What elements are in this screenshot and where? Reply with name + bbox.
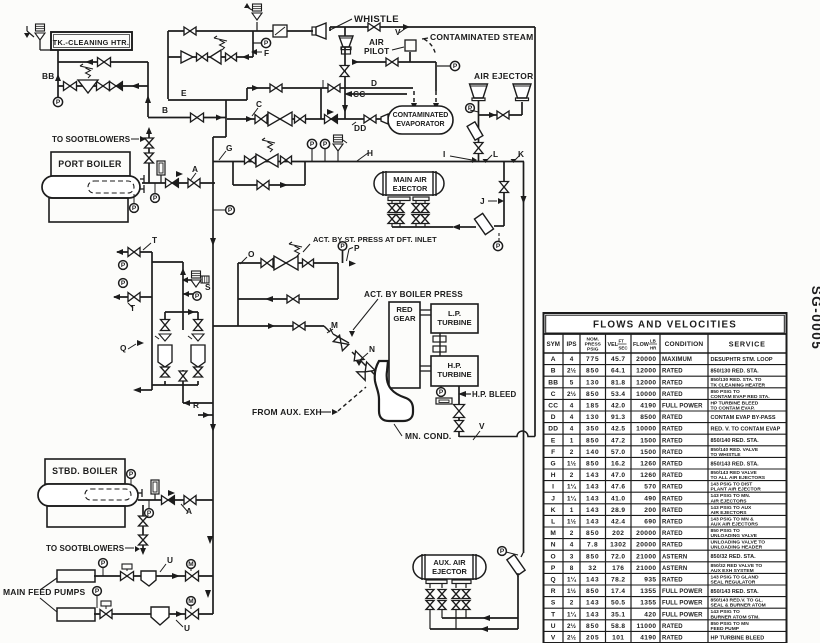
svg-text:DD: DD — [354, 123, 367, 133]
svg-text:16.2: 16.2 — [611, 461, 625, 468]
svg-text:P: P — [310, 141, 315, 148]
svg-text:35.1: 35.1 — [611, 611, 625, 618]
svg-text:47.6: 47.6 — [611, 484, 625, 491]
svg-text:TO CONTAM EVAP.: TO CONTAM EVAP. — [711, 406, 756, 412]
svg-text:935: 935 — [644, 577, 656, 584]
svg-text:RATED: RATED — [662, 496, 683, 502]
svg-text:ACT. BY ST. PRESS AT DFT. INLE: ACT. BY ST. PRESS AT DFT. INLET — [313, 235, 437, 244]
svg-text:143: 143 — [586, 519, 599, 526]
svg-text:B: B — [551, 368, 556, 375]
svg-text:850/143 RED VALVE: 850/143 RED VALVE — [711, 470, 758, 476]
svg-text:HP TURBINE BLEED: HP TURBINE BLEED — [711, 635, 765, 641]
svg-text:RATED: RATED — [662, 636, 683, 642]
svg-text:2: 2 — [570, 530, 574, 537]
svg-text:850/143 RED. STA.: 850/143 RED. STA. — [711, 589, 760, 595]
svg-text:10000: 10000 — [636, 426, 656, 433]
svg-text:P: P — [132, 205, 137, 212]
svg-text:DD: DD — [548, 426, 558, 433]
svg-text:ACT. BY BOILER PRESS: ACT. BY BOILER PRESS — [364, 290, 463, 299]
svg-text:RED. V. TO CONTAM EVAP: RED. V. TO CONTAM EVAP — [711, 427, 781, 433]
svg-text:130: 130 — [586, 414, 599, 421]
svg-text:4190: 4190 — [640, 635, 656, 642]
svg-text:8: 8 — [570, 565, 574, 572]
svg-text:570: 570 — [644, 484, 656, 491]
svg-text:143 PSIG TO DIST: 143 PSIG TO DIST — [711, 482, 753, 488]
svg-text:143 PSIG TO MN &: 143 PSIG TO MN & — [711, 516, 755, 522]
svg-text:DESUPHTR STM. LOOP: DESUPHTR STM. LOOP — [711, 357, 773, 363]
svg-text:RATED: RATED — [662, 427, 683, 433]
svg-text:P: P — [101, 560, 106, 567]
svg-text:V: V — [551, 635, 556, 642]
svg-text:I: I — [443, 149, 446, 159]
svg-text:L: L — [551, 519, 555, 526]
svg-text:FULL POWER: FULL POWER — [662, 589, 703, 595]
svg-text:12000: 12000 — [636, 379, 656, 386]
svg-text:P: P — [264, 40, 269, 47]
svg-text:1¼: 1¼ — [567, 483, 577, 491]
svg-text:FT: FT — [619, 339, 625, 344]
svg-text:1260: 1260 — [640, 461, 656, 468]
svg-text:1355: 1355 — [640, 600, 656, 607]
svg-text:4: 4 — [570, 414, 574, 421]
svg-text:72.0: 72.0 — [611, 553, 625, 560]
svg-text:P: P — [323, 141, 328, 148]
svg-text:GEAR: GEAR — [393, 314, 416, 323]
svg-text:41.0: 41.0 — [611, 495, 625, 502]
svg-text:IPS: IPS — [567, 341, 577, 348]
svg-text:850: 850 — [586, 437, 599, 444]
svg-text:SEAL & BURNER ATOM: SEAL & BURNER ATOM — [711, 603, 766, 609]
svg-text:RED: RED — [396, 305, 413, 314]
svg-text:202: 202 — [612, 530, 624, 537]
svg-text:UNLOADING HEADER: UNLOADING HEADER — [711, 545, 763, 551]
svg-text:RATED: RATED — [662, 508, 683, 514]
svg-text:P: P — [439, 389, 444, 396]
svg-text:SERVICE: SERVICE — [729, 339, 766, 348]
svg-text:F: F — [551, 449, 555, 456]
svg-text:M: M — [188, 598, 193, 605]
svg-text:RATED: RATED — [662, 415, 683, 421]
svg-text:R: R — [193, 400, 199, 410]
svg-text:FULL POWER: FULL POWER — [662, 404, 703, 410]
svg-text:2½: 2½ — [567, 390, 577, 398]
svg-text:42.5: 42.5 — [611, 426, 625, 433]
svg-text:TO WHISTLE: TO WHISTLE — [711, 452, 742, 458]
svg-text:850 PSIG TO MN: 850 PSIG TO MN — [711, 621, 750, 627]
svg-text:S: S — [551, 600, 556, 607]
svg-text:78.2: 78.2 — [611, 577, 625, 584]
svg-text:G: G — [226, 143, 233, 153]
svg-text:850: 850 — [586, 368, 599, 375]
svg-text:CC: CC — [548, 403, 558, 410]
svg-text:SYM: SYM — [547, 341, 560, 348]
svg-text:1¼: 1¼ — [567, 576, 577, 584]
svg-text:4: 4 — [570, 403, 574, 410]
svg-text:P: P — [354, 243, 360, 253]
svg-text:STBD. BOILER: STBD. BOILER — [52, 466, 118, 476]
svg-text:L.P.: L.P. — [448, 309, 461, 318]
svg-text:850/130 RED. STA. TO: 850/130 RED. STA. TO — [711, 377, 762, 383]
svg-text:2: 2 — [570, 449, 574, 456]
svg-text:MAIN FEED PUMPS: MAIN FEED PUMPS — [3, 587, 85, 597]
svg-text:850 PSIG TO: 850 PSIG TO — [711, 528, 740, 534]
svg-text:B: B — [162, 105, 168, 115]
svg-text:VEL: VEL — [608, 342, 619, 348]
svg-text:SEC: SEC — [619, 346, 629, 351]
svg-text:BURNER ATOM STM.: BURNER ATOM STM. — [711, 614, 761, 620]
svg-text:MAXIMUM: MAXIMUM — [662, 357, 692, 363]
svg-text:J: J — [551, 495, 555, 502]
svg-text:20000: 20000 — [636, 542, 656, 549]
svg-text:UNLOADING VALVE TO: UNLOADING VALVE TO — [711, 540, 766, 546]
svg-text:ASTERN: ASTERN — [662, 554, 687, 560]
svg-text:L: L — [493, 149, 498, 159]
svg-text:50.5: 50.5 — [611, 600, 625, 607]
svg-text:1: 1 — [570, 507, 574, 514]
svg-text:AIR EJECTORS: AIR EJECTORS — [711, 498, 748, 504]
svg-text:BB: BB — [548, 379, 558, 386]
svg-text:CONTAMINATED: CONTAMINATED — [393, 112, 449, 119]
svg-text:17.4: 17.4 — [611, 588, 625, 595]
svg-text:E: E — [181, 88, 187, 98]
svg-text:S: S — [205, 282, 211, 292]
svg-text:V: V — [479, 421, 485, 431]
svg-text:T: T — [152, 235, 157, 245]
svg-text:143: 143 — [586, 507, 599, 514]
svg-text:140: 140 — [586, 449, 599, 456]
svg-text:HP TURBINE BLEED: HP TURBINE BLEED — [711, 400, 759, 406]
svg-text:LB: LB — [650, 339, 656, 344]
svg-text:UNLOADING VALVE: UNLOADING VALVE — [711, 533, 758, 539]
svg-text:45.7: 45.7 — [611, 356, 625, 363]
svg-text:47.2: 47.2 — [611, 437, 625, 444]
svg-text:MN. COND.: MN. COND. — [405, 431, 451, 441]
svg-text:P: P — [453, 63, 458, 70]
svg-text:21000: 21000 — [636, 565, 656, 572]
svg-text:11000: 11000 — [637, 623, 657, 630]
svg-text:H.P.: H.P. — [448, 361, 462, 370]
svg-text:PSIG: PSIG — [587, 346, 599, 352]
svg-text:143: 143 — [586, 611, 599, 618]
svg-text:O: O — [248, 249, 255, 259]
svg-text:AIR EJECTORS: AIR EJECTORS — [711, 510, 748, 516]
svg-text:130: 130 — [586, 379, 599, 386]
svg-text:57.0: 57.0 — [611, 449, 625, 456]
svg-text:N: N — [369, 344, 375, 354]
svg-text:850: 850 — [586, 530, 599, 537]
svg-text:101: 101 — [612, 635, 624, 642]
svg-text:7.8: 7.8 — [587, 542, 599, 549]
svg-text:M: M — [550, 530, 556, 537]
svg-text:I: I — [552, 484, 554, 491]
svg-text:850: 850 — [586, 553, 599, 560]
svg-text:AIR EJECTOR: AIR EJECTOR — [474, 71, 533, 81]
svg-text:850: 850 — [586, 623, 599, 630]
svg-text:21000: 21000 — [636, 553, 656, 560]
svg-text:RATED: RATED — [662, 462, 683, 468]
svg-text:M: M — [331, 320, 338, 330]
svg-text:J: J — [480, 196, 485, 206]
svg-text:1½: 1½ — [567, 587, 577, 595]
svg-text:EJECTOR: EJECTOR — [393, 184, 428, 193]
svg-text:M: M — [188, 561, 193, 568]
svg-text:A: A — [551, 356, 556, 363]
svg-text:1500: 1500 — [640, 449, 656, 456]
svg-text:850: 850 — [586, 461, 599, 468]
svg-text:850 PSIG TO: 850 PSIG TO — [711, 389, 740, 395]
svg-text:D: D — [371, 78, 377, 88]
svg-text:P: P — [468, 105, 473, 112]
svg-text:1302: 1302 — [610, 542, 626, 549]
svg-text:AUX. AIR: AUX. AIR — [433, 558, 466, 567]
svg-text:28.9: 28.9 — [611, 507, 625, 514]
svg-text:E: E — [551, 437, 556, 444]
svg-text:U: U — [167, 555, 173, 565]
svg-text:850/140 RED. VALVE: 850/140 RED. VALVE — [711, 447, 759, 453]
svg-text:P: P — [56, 99, 61, 106]
svg-text:143: 143 — [586, 577, 599, 584]
svg-text:RATED: RATED — [662, 380, 683, 386]
svg-text:RATED: RATED — [662, 520, 683, 526]
svg-text:143: 143 — [586, 600, 599, 607]
svg-text:490: 490 — [644, 495, 656, 502]
svg-text:TURBINE: TURBINE — [437, 318, 471, 327]
svg-text:P: P — [153, 195, 158, 202]
svg-text:RATED: RATED — [662, 624, 683, 630]
svg-text:RATED: RATED — [662, 438, 683, 444]
svg-text:RATED: RATED — [662, 392, 683, 398]
svg-text:CONTAMINATED STEAM: CONTAMINATED STEAM — [430, 32, 533, 42]
svg-text:H.P. BLEED: H.P. BLEED — [472, 390, 516, 399]
svg-text:CONDITION: CONDITION — [665, 341, 704, 348]
svg-text:FROM AUX. EXH: FROM AUX. EXH — [252, 407, 322, 417]
svg-text:850/130 RED. STA.: 850/130 RED. STA. — [711, 369, 760, 375]
svg-text:53.4: 53.4 — [611, 391, 625, 398]
svg-text:P: P — [121, 262, 126, 269]
svg-text:P: P — [95, 588, 100, 595]
svg-text:C: C — [256, 99, 262, 109]
svg-text:H: H — [551, 472, 556, 479]
svg-text:Q: Q — [120, 343, 127, 353]
svg-text:850/32 RED VALVE TO: 850/32 RED VALVE TO — [711, 563, 763, 569]
svg-text:32: 32 — [588, 565, 597, 572]
svg-text:81.8: 81.8 — [611, 379, 625, 386]
svg-text:185: 185 — [586, 403, 599, 410]
svg-text:143 PSIG TO MN.: 143 PSIG TO MN. — [711, 493, 751, 499]
svg-text:143: 143 — [586, 484, 599, 491]
svg-text:775: 775 — [586, 356, 599, 363]
svg-text:5: 5 — [570, 379, 574, 386]
svg-text:O: O — [551, 553, 556, 560]
svg-text:TO SOOTBLOWERS: TO SOOTBLOWERS — [52, 135, 131, 144]
svg-text:10000: 10000 — [636, 391, 656, 398]
svg-text:42.0: 42.0 — [611, 403, 625, 410]
svg-text:K: K — [518, 149, 524, 159]
svg-text:TURBINE: TURBINE — [437, 370, 471, 379]
svg-text:1¼: 1¼ — [567, 610, 577, 618]
svg-text:143 PSIG TO GLAND: 143 PSIG TO GLAND — [711, 574, 759, 580]
svg-text:2½: 2½ — [567, 622, 577, 630]
svg-text:1¼: 1¼ — [567, 494, 577, 502]
svg-text:FLOW: FLOW — [633, 342, 650, 348]
svg-text:2: 2 — [570, 600, 574, 607]
svg-text:P: P — [551, 565, 556, 572]
svg-text:CONTAM EVAP RED STA.: CONTAM EVAP RED STA. — [711, 394, 771, 400]
svg-text:FULL POWER: FULL POWER — [662, 612, 703, 618]
svg-text:K: K — [551, 507, 556, 514]
svg-text:47.0: 47.0 — [611, 472, 625, 479]
svg-text:T: T — [551, 611, 555, 618]
svg-text:143: 143 — [586, 472, 599, 479]
svg-text:420: 420 — [644, 611, 656, 618]
svg-text:RATED: RATED — [662, 473, 683, 479]
svg-text:2: 2 — [570, 472, 574, 479]
svg-text:1½: 1½ — [567, 460, 577, 468]
svg-text:143 PSIG TO AUX: 143 PSIG TO AUX — [711, 505, 753, 511]
svg-text:R: R — [551, 588, 556, 595]
svg-text:P: P — [129, 471, 134, 478]
svg-text:F: F — [264, 48, 269, 58]
svg-text:U: U — [184, 623, 190, 633]
svg-text:1260: 1260 — [640, 472, 656, 479]
svg-text:PORT BOILER: PORT BOILER — [58, 159, 122, 169]
svg-text:42.4: 42.4 — [611, 519, 625, 526]
svg-text:4: 4 — [570, 356, 574, 363]
svg-text:BB: BB — [42, 71, 55, 81]
svg-text:176: 176 — [612, 565, 624, 572]
svg-text:FULL POWER: FULL POWER — [662, 601, 703, 607]
svg-text:2½: 2½ — [567, 367, 577, 375]
svg-text:143: 143 — [586, 495, 599, 502]
svg-text:EVAPORATOR: EVAPORATOR — [396, 121, 444, 128]
svg-text:RATED: RATED — [662, 578, 683, 584]
svg-text:N: N — [551, 542, 556, 549]
svg-text:FEED PUMP: FEED PUMP — [711, 626, 740, 632]
svg-text:RATED: RATED — [662, 450, 683, 456]
svg-text:P: P — [496, 243, 501, 250]
svg-text:690: 690 — [644, 519, 656, 526]
svg-text:850/140 RED. STA.: 850/140 RED. STA. — [711, 438, 760, 444]
svg-text:12000: 12000 — [636, 368, 656, 375]
svg-text:64.1: 64.1 — [611, 368, 625, 375]
svg-text:P: P — [228, 207, 233, 214]
svg-text:20000: 20000 — [636, 530, 656, 537]
svg-text:143 PSIG TO: 143 PSIG TO — [711, 609, 740, 615]
svg-text:8500: 8500 — [640, 414, 656, 421]
svg-text:P: P — [195, 293, 200, 300]
svg-text:TK.-CLEANING HTR.: TK.-CLEANING HTR. — [53, 38, 129, 47]
svg-text:CC: CC — [353, 89, 366, 99]
svg-text:PLANT AIR EJECTOR: PLANT AIR EJECTOR — [711, 487, 762, 493]
svg-text:850: 850 — [586, 588, 599, 595]
svg-text:4: 4 — [570, 426, 574, 433]
svg-text:TO ALL AIR EJECTORS: TO ALL AIR EJECTORS — [711, 475, 766, 481]
svg-text:MAIN AIR: MAIN AIR — [393, 175, 427, 184]
svg-text:200: 200 — [644, 507, 656, 514]
svg-text:850/143 RED.V. TO GL.: 850/143 RED.V. TO GL. — [711, 598, 764, 604]
svg-text:P: P — [121, 280, 126, 287]
svg-text:PILOT: PILOT — [364, 46, 389, 56]
svg-text:1: 1 — [570, 437, 574, 444]
svg-text:RATED: RATED — [662, 543, 683, 549]
svg-text:2½: 2½ — [567, 634, 577, 642]
svg-text:ASTERN: ASTERN — [662, 566, 687, 572]
svg-text:U: U — [551, 623, 556, 630]
svg-text:350: 350 — [586, 426, 599, 433]
svg-text:850/143 RED. STA.: 850/143 RED. STA. — [711, 461, 760, 467]
svg-text:20000: 20000 — [636, 356, 656, 363]
svg-text:P: P — [500, 548, 505, 555]
svg-text:P: P — [340, 243, 345, 250]
svg-text:Q: Q — [551, 577, 556, 584]
svg-text:3: 3 — [570, 553, 574, 560]
svg-text:4: 4 — [570, 542, 574, 549]
svg-text:FLOWS AND VELOCITIES: FLOWS AND VELOCITIES — [593, 319, 737, 330]
svg-text:205: 205 — [586, 635, 599, 642]
svg-text:G: G — [551, 461, 556, 468]
svg-text:CONTAM EVAP BY-PASS: CONTAM EVAP BY-PASS — [711, 415, 776, 421]
svg-text:WHISTLE: WHISTLE — [354, 14, 399, 25]
svg-text:SG-0005: SG-0005 — [809, 286, 820, 351]
svg-text:1355: 1355 — [640, 588, 656, 595]
svg-text:RATED: RATED — [662, 485, 683, 491]
svg-text:TO SOOTBLOWERS: TO SOOTBLOWERS — [46, 544, 125, 553]
svg-text:1500: 1500 — [640, 437, 656, 444]
svg-text:SEAL REGULATOR: SEAL REGULATOR — [711, 580, 756, 586]
svg-text:AUX AIR EJECTORS: AUX AIR EJECTORS — [711, 522, 759, 528]
svg-text:RATED: RATED — [662, 531, 683, 537]
svg-text:4190: 4190 — [640, 403, 656, 410]
svg-text:850: 850 — [586, 391, 599, 398]
svg-text:AUX EXH SYSTEM: AUX EXH SYSTEM — [711, 568, 754, 574]
svg-text:A: A — [192, 164, 198, 174]
svg-text:850/32 RED. STA.: 850/32 RED. STA. — [711, 554, 757, 560]
svg-text:D: D — [551, 414, 556, 421]
svg-text:C: C — [551, 391, 556, 398]
svg-text:RATED: RATED — [662, 369, 683, 375]
svg-text:HR: HR — [650, 346, 657, 351]
svg-text:1½: 1½ — [567, 518, 577, 526]
svg-text:58.8: 58.8 — [611, 623, 625, 630]
svg-text:TK CLEANING HEATER: TK CLEANING HEATER — [711, 382, 766, 388]
svg-text:EJECTOR: EJECTOR — [432, 567, 467, 576]
svg-text:91.3: 91.3 — [611, 414, 625, 421]
